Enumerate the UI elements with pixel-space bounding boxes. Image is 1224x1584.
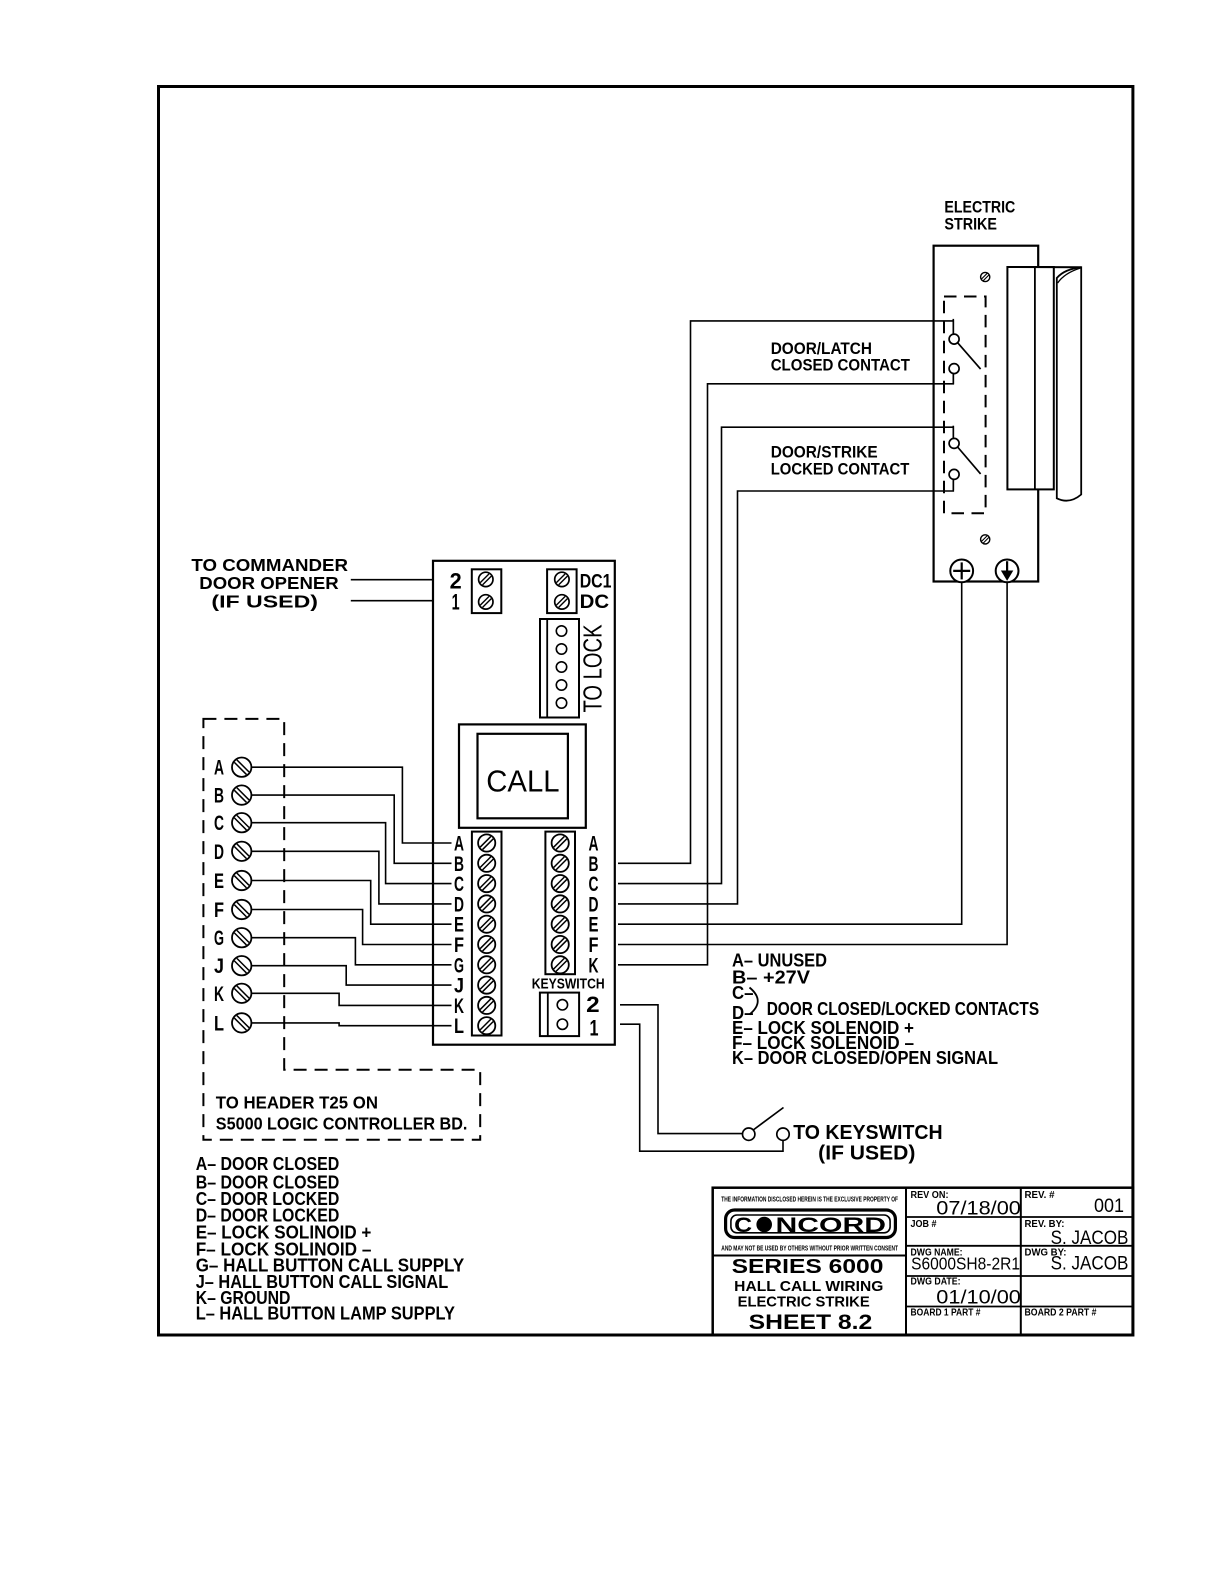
screw 2 [479,572,493,586]
right strip terminal D [552,895,569,912]
svg-text:TO LOCK: TO LOCK [578,624,608,713]
header terminal G [232,928,251,947]
right strip terminal F [552,936,569,953]
svg-text:STRIKE: STRIKE [944,215,997,233]
svg-text:REV. #: REV. # [1025,1190,1055,1201]
wire D header to strip [251,851,451,904]
svg-text:S6000SH8-2R1: S6000SH8-2R1 [911,1254,1020,1274]
left strip terminal A [478,834,495,851]
svg-text:JOB #: JOB # [911,1219,937,1230]
header terminal A [232,758,251,777]
svg-text:KEYSWITCH: KEYSWITCH [532,977,605,993]
keyswitch connector block [540,993,579,1037]
strike mounting screw top [981,272,990,281]
svg-text:L– HALL BUTTON LAMP SUPPLY: L– HALL BUTTON LAMP SUPPLY [196,1304,455,1324]
screw DC [555,595,569,609]
header terminal J [232,956,251,975]
wire L header to strip [251,1023,451,1026]
left strip terminal C [478,875,495,892]
svg-text:F: F [214,899,224,922]
wire K strip to latch contact bottom [618,374,953,965]
wire B strip to latch contact top [618,321,953,863]
dashed header box [203,719,480,1140]
svg-text:AND MAY NOT BE USED BY OTHERS: AND MAY NOT BE USED BY OTHERS WITHOUT PR… [721,1244,898,1253]
page border frame [159,87,1133,1336]
header terminal E [232,871,251,890]
DC terminal block [547,569,577,613]
screw 1 [479,595,493,609]
svg-text:HALL CALL WIRING: HALL CALL WIRING [734,1278,883,1295]
solenoid - terminal (arrow) [996,560,1019,583]
svg-text:001: 001 [1094,1196,1124,1217]
svg-text:(IF USED): (IF USED) [211,591,318,611]
svg-text:K: K [214,983,224,1006]
svg-text:ELECTRIC STRIKE: ELECTRIC STRIKE [738,1294,870,1311]
svg-text:1: 1 [452,590,460,615]
left strip terminal L [478,1017,495,1034]
svg-text:S. JACOB: S. JACOB [1051,1228,1129,1249]
wire G header to strip [251,938,451,965]
header terminal labels [214,757,224,1036]
wire C strip to strike contact top [618,427,953,883]
svg-text:BOARD 1 PART #: BOARD 1 PART # [911,1308,981,1319]
svg-text:TO HEADER T25 ON: TO HEADER T25 ON [216,1093,378,1113]
svg-text:E: E [214,870,224,893]
wire F strip to solenoid - [618,582,1007,944]
svg-text:DOOR OPENER: DOOR OPENER [199,573,339,593]
wire E header to strip [251,881,451,925]
wire keyswitch 1 [620,1024,783,1151]
right strip terminal K [552,956,569,973]
wire F header to strip [251,910,451,945]
svg-text:K– DOOR CLOSED/OPEN SIGNAL: K– DOOR CLOSED/OPEN SIGNAL [732,1048,998,1068]
svg-text:1: 1 [590,1015,599,1040]
svg-text:DWG DATE:: DWG DATE: [911,1277,961,1288]
svg-text:BOARD 2 PART #: BOARD 2 PART # [1025,1308,1097,1319]
legend C/D brace [750,988,758,1015]
CALL button [459,724,586,827]
svg-text:07/18/00: 07/18/00 [936,1199,1021,1220]
right strip terminal A [552,834,569,851]
right strip terminal C [552,875,569,892]
svg-text:CLOSED CONTACT: CLOSED CONTACT [771,356,911,375]
svg-text:S. JACOB: S. JACOB [1051,1254,1129,1275]
header terminal B [232,785,251,804]
wire keyswitch 2 [620,1005,743,1134]
strike faceplate [1007,267,1053,489]
strike keeper (curved lip) [1007,267,1081,501]
svg-text:G: G [214,927,224,950]
right strip terminal E [552,916,569,933]
left strip terminal E [478,916,495,933]
left strip labels [454,833,464,1039]
door/strike locked contact switch [949,426,981,490]
svg-text:CALL: CALL [486,764,559,798]
svg-text:NCORD: NCORD [776,1214,887,1237]
wire E strip to solenoid + [618,582,962,924]
right strip labels [589,833,599,978]
header terminal F [232,900,251,919]
svg-text:A: A [214,757,224,780]
keyswitch symbol [743,1108,790,1141]
strike mounting screw bottom [981,535,990,544]
wire C header to strip [251,823,451,884]
left strip terminal D [478,895,495,912]
wire commander 2 [351,579,433,581]
svg-text:S5000 LOGIC CONTROLLER BD.: S5000 LOGIC CONTROLLER BD. [216,1114,468,1134]
svg-text:J: J [214,955,224,978]
door/latch closed contact switch [949,319,981,384]
left terminal strip A-L [472,832,502,1036]
left strip terminal B [478,855,495,872]
svg-text:C: C [214,812,224,835]
svg-text:L: L [214,1012,224,1035]
wire commander 1 [351,600,433,602]
svg-text:TO KEYSWITCH: TO KEYSWITCH [793,1122,942,1144]
left strip terminal J [478,977,495,994]
svg-text:L: L [454,1015,464,1038]
left strip terminal K [478,997,495,1014]
wire K header to strip [251,993,451,1005]
solenoid + terminal [950,560,973,583]
strike internal dashed enclosure [944,297,986,514]
header terminal K [232,984,251,1003]
left signal legend [196,1154,465,1324]
right strip terminal B [552,855,569,872]
screw DC1 [555,572,569,586]
left strip terminal F [478,936,495,953]
svg-text:THE INFORMATION DISCLOSED HERE: THE INFORMATION DISCLOSED HEREIN IS THE … [721,1195,898,1204]
title block [713,1188,1133,1335]
svg-text:DC1: DC1 [580,572,612,593]
svg-text:C: C [734,1214,752,1237]
svg-text:K: K [589,954,599,977]
svg-text:2: 2 [586,992,600,1017]
wire J header to strip [251,966,451,985]
svg-text:01/10/00: 01/10/00 [936,1288,1021,1309]
svg-text:DC: DC [580,591,610,613]
hall call board [433,561,615,1045]
svg-text:TO COMMANDER: TO COMMANDER [191,555,348,575]
svg-text:SERIES 6000: SERIES 6000 [732,1256,884,1278]
svg-text:DOOR CLOSED/LOCKED CONTACTS: DOOR CLOSED/LOCKED CONTACTS [767,999,1039,1019]
CONCORD logo [726,1210,896,1238]
TO LOCK connector [540,619,579,718]
header terminal C [232,813,251,832]
svg-text:LOCKED CONTACT: LOCKED CONTACT [771,460,910,479]
left strip terminal G [478,956,495,973]
svg-text:C–: C– [732,983,754,1003]
electric strike body [934,246,1039,582]
right signal legend [732,951,1039,1069]
commander terminal block 2/1 [472,569,502,613]
svg-text:SHEET 8.2: SHEET 8.2 [749,1310,873,1334]
svg-text:B: B [214,785,224,808]
svg-text:(IF USED): (IF USED) [818,1142,915,1164]
svg-text:D: D [214,841,224,864]
header terminal D [232,842,251,861]
wire D strip to strike contact bottom [618,479,953,904]
right terminal strip A-K [545,832,575,975]
wire B header to strip [251,795,451,863]
wire A header to strip [251,767,451,843]
svg-text:A– DOOR CLOSED: A– DOOR CLOSED [196,1154,340,1174]
svg-text:ELECTRIC: ELECTRIC [944,198,1015,216]
header terminal L [232,1013,251,1032]
